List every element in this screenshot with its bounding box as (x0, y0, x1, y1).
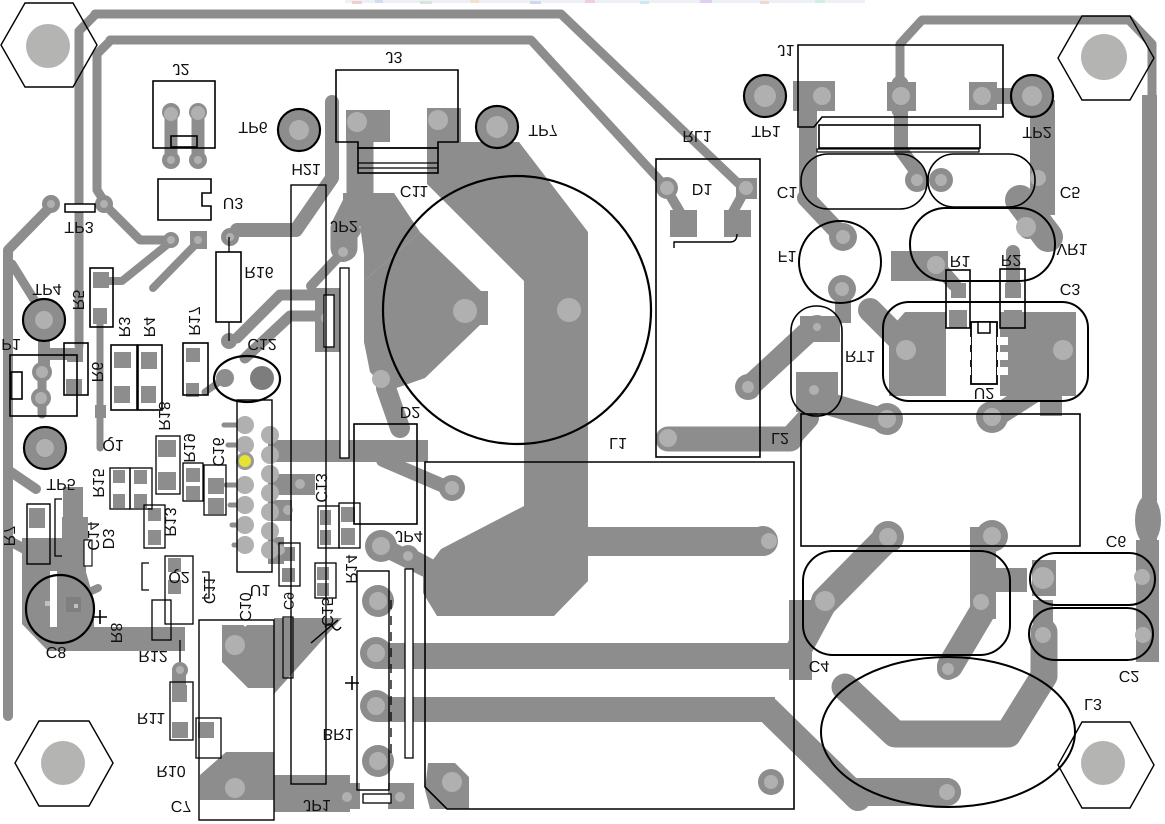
C6 outline (1030, 553, 1155, 605)
svg-text:U1: U1 (250, 581, 271, 598)
wire band through D2 from U1 (268, 440, 428, 462)
hexagon bottom-right fill (1058, 722, 1154, 808)
label TP2 (1022, 123, 1051, 140)
JP1 pad centers (342, 792, 352, 802)
svg-text:BR1: BR1 (322, 725, 353, 742)
label L2 (771, 429, 789, 446)
C2 left pad column (1033, 600, 1053, 668)
small slot left cluster (84, 540, 92, 566)
wire top-right border (900, 20, 1152, 550)
wire RT1 to T1 pad1 (812, 399, 880, 419)
svg-text:J1: J1 (778, 41, 795, 58)
R12 lead to R11 (172, 662, 188, 678)
svg-text:C15: C15 (318, 597, 335, 626)
svg-text:C2: C2 (1119, 667, 1140, 684)
hexagon bottom-left fill (15, 721, 113, 806)
R14b outline (183, 463, 203, 501)
silk diagonal near BR1 (311, 620, 338, 643)
R4 outline (138, 345, 162, 410)
TP3 pad centers (47, 200, 55, 208)
svg-text:Q1: Q1 (102, 436, 123, 453)
svg-text:R11: R11 (137, 709, 165, 726)
L3 U-band (845, 632, 1044, 734)
label C11 (400, 182, 428, 199)
label C12 (247, 335, 276, 352)
label C10 (236, 592, 253, 621)
TP2 outline (1011, 75, 1053, 117)
R11 region pads (176, 666, 184, 674)
svg-text:R19: R19 (180, 433, 197, 462)
svg-text:U2: U2 (974, 384, 995, 401)
TP6 pad fill (279, 110, 319, 150)
capacitor C8 copper (28, 571, 92, 635)
label D1 (692, 180, 713, 197)
C12 pads (216, 369, 234, 387)
hexagon top-right outline (1058, 16, 1154, 100)
label R15 (89, 468, 106, 497)
R2 pads (1005, 283, 1021, 298)
wire right border widening (1142, 95, 1157, 560)
J2 pin traces (165, 113, 178, 160)
R14b pads (186, 468, 200, 482)
TP6 outline (278, 109, 320, 151)
tilde near BR1 top (325, 624, 341, 630)
hexagon BR circle (1081, 741, 1125, 785)
label C14 (84, 521, 101, 550)
central copper mass (423, 142, 588, 616)
TP pads light centers (289, 120, 309, 140)
R17 outline (183, 343, 208, 395)
hexagon bottom-right outline (1058, 722, 1154, 808)
U2 body (971, 322, 997, 384)
label U3 (223, 194, 244, 211)
svg-text:R2: R2 (1001, 251, 1022, 268)
svg-text:RT1: RT1 (845, 347, 875, 364)
C2 outline (1029, 608, 1153, 660)
svg-text:R15: R15 (89, 468, 106, 497)
R6 pads (67, 348, 83, 362)
capacitor C9 (279, 543, 300, 586)
C8 pad (66, 597, 81, 612)
label U1 (250, 581, 271, 598)
VR1 pad centers (1016, 217, 1036, 237)
R1 outline (946, 270, 970, 328)
label R7 (0, 526, 17, 547)
label C8 (46, 643, 67, 660)
wire C3 to T1 pad2 (996, 384, 1046, 416)
C15 outline (315, 563, 336, 598)
band through C8 to R12 (22, 538, 185, 651)
C8 outline (26, 575, 94, 643)
pentagon in L1 corner (425, 763, 469, 809)
svg-text:F1: F1 (778, 247, 797, 264)
VR1 copper (1020, 200, 1048, 237)
plus sign near BR1 (345, 676, 359, 690)
svg-text:R7: R7 (0, 526, 17, 547)
label R1 (950, 252, 971, 269)
TP5 pad fill (25, 428, 65, 468)
svg-text:C1: C1 (777, 183, 798, 200)
label R5 (69, 290, 86, 311)
svg-text:TP2: TP2 (1022, 123, 1051, 140)
svg-text:JP1: JP1 (303, 796, 331, 813)
J1 pad centers (813, 87, 831, 105)
svg-text:R16: R16 (244, 263, 273, 280)
BR1 pad centers (369, 592, 387, 610)
svg-text:C3: C3 (1060, 280, 1081, 297)
plus sign near C8 (93, 610, 107, 624)
C16 outline (204, 465, 226, 515)
top colored tiny text row (345, 0, 865, 4)
R13 outline (144, 505, 165, 548)
label U2 (974, 384, 995, 401)
label R2 (1001, 251, 1022, 268)
label R11 (137, 709, 165, 726)
svg-text:D1: D1 (692, 180, 713, 197)
label F1 (778, 247, 797, 264)
C12 outline (214, 356, 280, 402)
hexagon top-left fill (1, 3, 97, 87)
pad square near U3 (190, 231, 207, 249)
label R10 (156, 762, 185, 779)
R5 pads (93, 272, 109, 288)
svg-text:R13: R13 (161, 507, 178, 536)
label Q2 (168, 568, 189, 585)
label L1 (609, 434, 627, 451)
BR1 pads (362, 585, 394, 617)
svg-text:TP1: TP1 (751, 122, 780, 139)
yellow pad on U1 (236, 452, 254, 470)
label TP1 (751, 122, 780, 139)
TP4 outline (23, 299, 65, 341)
label C9 (281, 592, 297, 610)
label C5 (1060, 183, 1081, 200)
svg-text:H21: H21 (291, 160, 320, 177)
C6 left pad blob (1032, 560, 1056, 596)
U1 pad columns (236, 416, 254, 434)
svg-text:R17: R17 (185, 306, 202, 335)
TP7 pad fill (477, 107, 517, 147)
C1 C5 pad centers (911, 174, 923, 186)
svg-text:R1: R1 (950, 252, 971, 269)
P1 outline (10, 355, 77, 416)
C6/C2 pad centers (1032, 567, 1054, 589)
svg-text:U3: U3 (223, 194, 244, 211)
R3 outline (111, 345, 137, 410)
TP1 outline (744, 75, 786, 117)
R10 pad (198, 722, 214, 738)
hexagon top-left outline (1, 3, 97, 87)
svg-text:R3: R3 (115, 317, 132, 338)
C7 top pentagon (222, 625, 274, 688)
svg-text:L1: L1 (609, 434, 627, 451)
J2 pad centers (164, 107, 178, 121)
C13 pads (320, 510, 331, 525)
label TP5 (46, 475, 75, 492)
wire via to R5 (102, 244, 168, 281)
R9 outline (152, 600, 171, 640)
svg-text:C12: C12 (247, 335, 276, 352)
BR1 slot (405, 569, 413, 758)
svg-text:C4: C4 (809, 657, 830, 674)
wire L1 interior stub (588, 527, 763, 556)
wire from J1 mid pad up to border (892, 84, 909, 110)
label P1 (1, 335, 21, 352)
R7 pads (29, 508, 45, 528)
label TP6 (238, 118, 267, 135)
D1/RL1 pad centers (660, 181, 674, 195)
R2 outline (1000, 269, 1025, 328)
R10 outline (196, 718, 221, 758)
svg-text:TP7: TP7 (528, 121, 557, 138)
svg-text:C9: C9 (281, 592, 297, 610)
label C6 (1106, 532, 1127, 549)
svg-text:TP4: TP4 (32, 280, 61, 297)
label BR1 (322, 725, 353, 742)
TP2 pad fill (1012, 76, 1052, 116)
TP1 pad fill (745, 76, 785, 116)
label JP2 (330, 217, 358, 234)
F1 outline (799, 221, 881, 303)
label C7 (171, 797, 192, 814)
label C3 (1060, 280, 1081, 297)
Q2 outline (165, 556, 193, 624)
L2 pad (659, 429, 677, 447)
D1 bracket (674, 234, 737, 248)
svg-text:L3: L3 (1084, 695, 1102, 712)
svg-text:R8: R8 (107, 623, 124, 644)
label C13 (312, 473, 329, 502)
F1 pad centers (836, 230, 850, 244)
wire bands U1 right (268, 474, 315, 495)
label RT1 (845, 347, 875, 364)
dark block left (63, 487, 83, 517)
wire band1 BR1 to L1 right (376, 643, 806, 669)
wire T1 pad4 column down (970, 527, 996, 619)
wire inner border top-left (110, 40, 666, 187)
L3 pad (939, 784, 955, 800)
svg-text:TP3: TP3 (64, 218, 93, 235)
C15 pads (317, 567, 329, 580)
wire diagonals near C12 (237, 295, 320, 338)
C4 outline (803, 551, 1010, 655)
label L3 (1084, 695, 1102, 712)
svg-text:R12: R12 (138, 647, 167, 664)
svg-text:RL1: RL1 (682, 127, 711, 144)
R16 outline (216, 252, 241, 322)
wire band2 BR1 (376, 697, 775, 722)
C8 minus stripe (50, 571, 57, 627)
JP4 pad centers (372, 537, 390, 555)
L2 trace (668, 427, 790, 452)
C7 outline (199, 620, 274, 820)
node TP3 pads (42, 195, 60, 213)
R19 outline (156, 436, 180, 494)
C3 right blob (1000, 312, 1076, 396)
label R6 (88, 362, 105, 383)
P1 pads and traces (32, 362, 52, 382)
R5 outline (90, 268, 113, 327)
svg-text:R4: R4 (140, 317, 157, 338)
label J2 (173, 60, 190, 77)
label C11b (200, 576, 217, 604)
label C15 (318, 597, 335, 626)
R14 outline (339, 503, 360, 548)
C7 bottom mass (200, 752, 274, 800)
svg-text:C7: C7 (171, 797, 192, 814)
label C16 (209, 437, 226, 466)
label TP4 (32, 280, 61, 297)
R17 pads (186, 348, 200, 362)
hexagon TR circle (1081, 34, 1127, 80)
svg-text:TP5: TP5 (46, 475, 75, 492)
label R16 (244, 263, 273, 280)
label C2 (1119, 667, 1140, 684)
R14 pads (341, 507, 355, 522)
wire left border (8, 206, 51, 716)
label JP1 (303, 796, 331, 813)
C1 outline (801, 154, 927, 209)
C5 outline (928, 154, 1035, 207)
Q2 pads (168, 558, 181, 572)
C3 left blob (889, 312, 946, 396)
TP3 jumper body (65, 204, 95, 212)
JP1 pads (337, 787, 357, 807)
RT1 blobs (800, 316, 840, 342)
TP5 outline (24, 427, 66, 469)
white slash (222, 598, 246, 626)
label R17 (185, 306, 202, 335)
hexagon top-right fill (1058, 16, 1154, 100)
svg-text:C16: C16 (209, 437, 226, 466)
JP2 pad center (338, 247, 348, 257)
svg-text:C11: C11 (400, 182, 428, 199)
label Q1 (102, 436, 123, 453)
wire J3 left column down to JP2 (344, 140, 360, 248)
U1 fan traces (224, 423, 245, 428)
wire vertical2 to TP3 right pad (97, 41, 110, 201)
label TP3 (64, 218, 93, 235)
node JP2 pad (333, 242, 353, 262)
label C1 (777, 183, 798, 200)
RL1 pads / D1 (656, 177, 678, 199)
svg-text:VR1: VR1 (1056, 240, 1087, 257)
svg-text:J3: J3 (386, 48, 403, 65)
C3 pad centers (896, 340, 916, 360)
svg-text:J2: J2 (173, 60, 190, 77)
label R4 (140, 317, 157, 338)
JP1 slot (363, 794, 391, 803)
R13 pads (148, 508, 161, 521)
J3 pad centers (347, 112, 367, 132)
label R19 (180, 433, 197, 462)
J3 outline (336, 70, 458, 148)
bracket D3 left (55, 499, 62, 556)
J2 outline (153, 81, 215, 148)
label H21 (291, 160, 320, 177)
label VR1 (1056, 240, 1087, 257)
wire J1 left pad down to F1 (799, 108, 817, 198)
C16 pads (208, 478, 224, 494)
svg-text:C8: C8 (46, 643, 67, 660)
label RL1 (682, 127, 711, 144)
label R12 (138, 647, 167, 664)
label D2 (400, 403, 421, 420)
wire T1 pad3 into C4 (825, 537, 888, 601)
TP2 column down through C5 (1030, 100, 1055, 215)
label C4 (809, 657, 830, 674)
stub pad (761, 533, 777, 549)
R16 pads (221, 333, 237, 349)
svg-text:D2: D2 (400, 403, 421, 420)
H21 white slot (324, 295, 334, 347)
H21 outline (291, 185, 326, 784)
TP7 outline (476, 106, 518, 148)
wire outer border top-left (95, 14, 741, 186)
T1 pads (871, 403, 903, 435)
Q1 outlines (110, 468, 130, 509)
staircase diagonal mass between C7 and BR1 (274, 618, 342, 694)
label TP7 (528, 121, 557, 138)
D2 outline (354, 424, 417, 524)
label R18 (155, 401, 172, 430)
T1 pad centers (878, 410, 896, 428)
label JP4 (395, 527, 423, 544)
Q1 pads (113, 470, 125, 483)
bridge from J3 column to diamond (343, 193, 420, 281)
label R3 (115, 317, 132, 338)
BR1 dashed line (390, 600, 392, 753)
label J3 (386, 48, 403, 65)
U1 outline (237, 400, 272, 572)
big cap C17 circle (383, 176, 651, 444)
copper diamond left of circle center (364, 232, 488, 391)
svg-text:C11: C11 (200, 576, 217, 604)
TP4 pad fill (24, 300, 64, 340)
svg-text:C5: C5 (1060, 183, 1081, 200)
svg-text:TP6: TP6 (238, 118, 267, 135)
hexagon bottom-left outline (15, 721, 113, 806)
svg-text:C14: C14 (84, 521, 101, 550)
wire diag in D2 to pad (383, 460, 446, 487)
C13 outline (318, 506, 339, 548)
hexagon BL circle (41, 741, 85, 785)
svg-text:JP4: JP4 (395, 527, 423, 544)
svg-text:R14: R14 (342, 554, 359, 583)
central mass pads (453, 299, 477, 323)
C3 outline (883, 302, 1088, 401)
label R13 (161, 507, 178, 536)
svg-text:JP2: JP2 (330, 217, 358, 234)
U2 pin notches left comb (960, 337, 1008, 375)
R4 pads (141, 352, 157, 369)
J1 outline (798, 45, 1003, 127)
R6 outline (64, 343, 88, 395)
C7 inner pads (225, 635, 245, 655)
J3 pad squares (346, 110, 390, 142)
svg-text:R5: R5 (69, 290, 86, 311)
H21 copper block w/ slot (315, 288, 341, 352)
svg-text:C13: C13 (312, 473, 329, 502)
wire J1 mid pad down to C1 pad (901, 108, 917, 172)
svg-text:P1: P1 (1, 335, 21, 352)
L1 outline (425, 462, 794, 809)
JP2 slot (340, 268, 349, 458)
U3 outline (158, 179, 211, 220)
J1 pad squares (793, 81, 835, 111)
C1 C5 pads (905, 168, 929, 192)
R11 pads (172, 685, 187, 702)
